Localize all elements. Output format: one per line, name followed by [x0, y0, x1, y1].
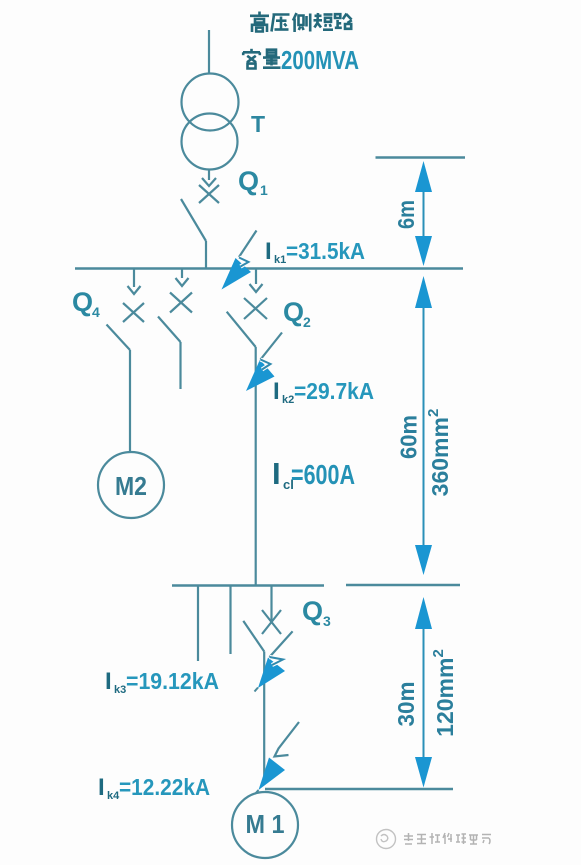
- svg-text:Q: Q: [302, 596, 323, 626]
- 60m up arrowhead: [415, 276, 432, 308]
- svg-text:Q: Q: [283, 297, 304, 327]
- dim 60m arrows: [415, 276, 432, 575]
- 60m down arrowhead: [415, 545, 432, 575]
- motor M1: [232, 792, 298, 858]
- svg-text:60m: 60m: [396, 415, 422, 459]
- fault arrow k2: [246, 333, 282, 392]
- svg-text:I: I: [265, 238, 272, 265]
- wire spare feeder stub: [179, 342, 181, 389]
- Q4 contact X: [123, 303, 144, 322]
- k3 arrow shaft: [270, 631, 293, 657]
- dim 30m arrows: [415, 597, 432, 788]
- fault arrow k3: [255, 631, 293, 691]
- 6m dimension shaft: [423, 192, 425, 236]
- k2 arrow zigzag flag: [261, 360, 271, 370]
- busbar2 stub 1: [197, 586, 199, 662]
- svg-text:=29.7kA: =29.7kA: [294, 378, 374, 404]
- k4 arrow head: [259, 758, 286, 791]
- wire Q4 to motor M2: [129, 350, 131, 452]
- k1 arrow zigzag flag: [239, 258, 249, 267]
- svg-text:Q: Q: [238, 166, 259, 196]
- T primary winding: [182, 74, 239, 131]
- wire busbar W1 to Q4: [133, 269, 135, 288]
- svg-text:6m: 6m: [393, 200, 419, 229]
- wire transformer to Q1: [208, 170, 210, 180]
- Q1 withdrawable chevron: [202, 178, 216, 186]
- svg-text:k3: k3: [114, 684, 126, 696]
- spare feeder breaker: [158, 269, 192, 390]
- k3 arrow tip tail: [255, 688, 259, 692]
- k1 arrow head: [222, 258, 252, 290]
- transformer T: [182, 74, 239, 170]
- fault arrow k1: [222, 231, 257, 290]
- svg-text:I: I: [105, 668, 112, 695]
- watermark text: [404, 833, 491, 844]
- dim tick mid right: [346, 584, 460, 587]
- breaker Q2: [227, 269, 267, 586]
- k2 arrow head: [246, 360, 275, 392]
- Q2 withdrawable chevron: [250, 284, 263, 292]
- Q2 open blade: [227, 312, 256, 347]
- Q4 open blade: [107, 325, 131, 351]
- svg-text:M 1: M 1: [246, 809, 285, 839]
- wire busbar W1 to spare breaker: [181, 269, 183, 279]
- breaker Q3: [243, 586, 281, 779]
- T secondary winding: [182, 114, 238, 170]
- svg-text:Q: Q: [72, 287, 93, 317]
- wire top lead: [208, 30, 210, 74]
- fault arrow k4: [255, 722, 299, 794]
- 60m dimension shaft: [423, 308, 425, 545]
- 6m down arrowhead: [415, 236, 432, 266]
- svg-text:1: 1: [260, 182, 268, 198]
- dim 6m arrows: [415, 161, 432, 266]
- motor M2: [98, 452, 164, 518]
- svg-text:360mm2: 360mm2: [425, 409, 453, 497]
- Q1 contact X: [199, 185, 219, 203]
- svg-text:30m: 30m: [393, 682, 419, 727]
- svg-text:200MVA: 200MVA: [281, 45, 359, 75]
- Q4 withdrawable chevron: [128, 286, 141, 294]
- breaker Q4: [107, 269, 145, 453]
- spare breaker contact X: [170, 293, 192, 313]
- Q1 open blade: [181, 199, 206, 241]
- spare breaker withdrawable chevron: [176, 278, 189, 286]
- svg-text:M2: M2: [115, 471, 147, 501]
- title line1: 高压侧短路: [250, 12, 352, 33]
- svg-text:2: 2: [303, 314, 311, 330]
- Q3 contact X: [262, 610, 281, 634]
- svg-text:k2: k2: [282, 394, 294, 406]
- svg-text:4: 4: [92, 304, 100, 320]
- svg-text:T: T: [251, 111, 265, 137]
- svg-text:I: I: [273, 378, 280, 405]
- k4 arrow shaft with zigzag: [275, 722, 300, 757]
- 30m down arrowhead: [415, 757, 432, 788]
- wire cable Q2 to busbar W2 (60m 360mm2): [255, 347, 257, 586]
- breaker Q1: [181, 170, 219, 268]
- 30m dimension shaft: [423, 629, 425, 757]
- busbar 1: [75, 267, 463, 270]
- dimension: top tick: [376, 156, 466, 159]
- wire busbar W1 to Q2: [255, 269, 257, 285]
- k2 arrow shaft: [261, 333, 283, 360]
- svg-text:=12.22kA: =12.22kA: [119, 774, 210, 800]
- busbar 2: [172, 584, 324, 587]
- wire busbar W2 to Q3: [270, 586, 272, 623]
- 30m up arrowhead: [415, 597, 432, 629]
- watermark logo: [377, 830, 396, 849]
- 6m up arrowhead: [415, 161, 432, 192]
- svg-text:I: I: [98, 774, 105, 801]
- title line2: 容量200MVA: [243, 49, 281, 69]
- Q2 contact X: [244, 298, 267, 319]
- Q3 open blade: [243, 621, 264, 652]
- svg-text:3: 3: [323, 613, 331, 629]
- svg-text:I: I: [272, 456, 281, 491]
- wire Q1 to busbar W1: [205, 241, 207, 268]
- svg-text:=600A: =600A: [291, 459, 355, 490]
- wire cable Q3 to motor M1 (30m 120mm2): [263, 652, 265, 779]
- k3 arrow zigzag flag: [270, 657, 284, 665]
- svg-text:=31.5kA: =31.5kA: [286, 238, 365, 264]
- spare breaker open blade: [158, 317, 181, 343]
- svg-text:120mm2: 120mm2: [430, 649, 458, 737]
- k4 arrow tip tail: [255, 790, 259, 794]
- k3 arrow head: [258, 658, 285, 689]
- dimension: bottom tick: [265, 788, 453, 791]
- busbar2 stub 2: [229, 586, 231, 655]
- svg-text:=19.12kA: =19.12kA: [126, 668, 219, 694]
- svg-text:k1: k1: [274, 254, 286, 266]
- k1 arrow shaft: [239, 231, 257, 258]
